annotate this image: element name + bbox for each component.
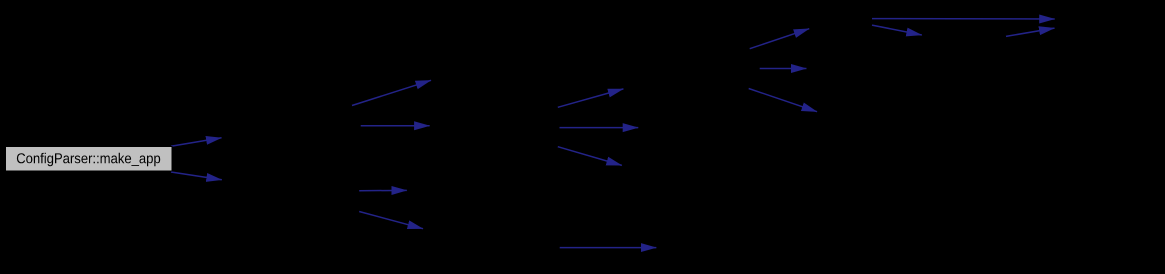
wire E3: [361, 125, 430, 127]
wire E11: [749, 89, 817, 112]
wire E4: [359, 189, 407, 191]
wire E13: [872, 25, 922, 35]
wire E12: [872, 18, 1055, 20]
wire E7: [560, 127, 639, 129]
wire E8: [558, 147, 622, 166]
wire E15: [560, 247, 657, 249]
wire E2: [352, 80, 431, 105]
wire E14: [1006, 28, 1055, 36]
wire E9: [750, 29, 810, 49]
wire E6: [558, 89, 624, 107]
wire E5: [359, 212, 423, 229]
wire E10: [760, 68, 807, 70]
node ConfigParser::make_app: [6, 147, 173, 172]
wire E1b: [171, 172, 222, 180]
wire E1a: [171, 138, 222, 147]
